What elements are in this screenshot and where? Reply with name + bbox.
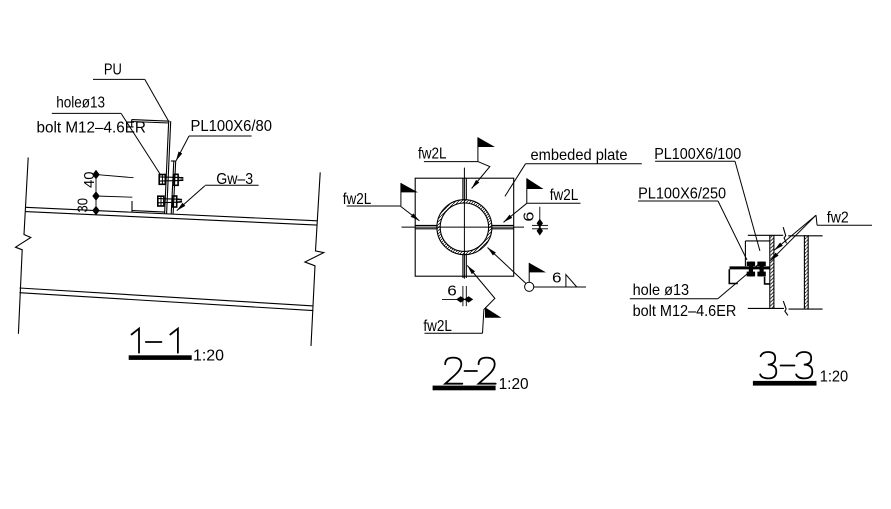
svg-text:1:20: 1:20 xyxy=(193,348,224,365)
svg-text:6: 6 xyxy=(521,212,538,222)
svg-text:hole ø13: hole ø13 xyxy=(633,282,690,299)
svg-text:bolt M12–4.6ER: bolt M12–4.6ER xyxy=(37,119,146,136)
svg-text:fw2: fw2 xyxy=(827,210,849,227)
svg-text:30: 30 xyxy=(75,198,92,213)
svg-text:fw2L: fw2L xyxy=(418,145,447,162)
svg-text:6: 6 xyxy=(447,283,457,300)
svg-text:PU: PU xyxy=(104,61,122,78)
svg-text:bolt M12–4.6ER: bolt M12–4.6ER xyxy=(633,303,737,320)
svg-text:embeded plate: embeded plate xyxy=(531,147,628,164)
svg-text:fw2L: fw2L xyxy=(423,318,452,335)
svg-text:40: 40 xyxy=(81,172,98,189)
svg-text:PL100X6/250: PL100X6/250 xyxy=(638,185,726,202)
svg-text:1:20: 1:20 xyxy=(499,376,529,393)
svg-text:1:20: 1:20 xyxy=(820,369,849,386)
svg-text:PL100X6/80: PL100X6/80 xyxy=(191,118,273,135)
svg-text:holeø13: holeø13 xyxy=(56,95,105,112)
svg-text:fw2L: fw2L xyxy=(550,187,579,204)
svg-text:PL100X6/100: PL100X6/100 xyxy=(654,146,741,163)
svg-text:6: 6 xyxy=(552,270,562,287)
